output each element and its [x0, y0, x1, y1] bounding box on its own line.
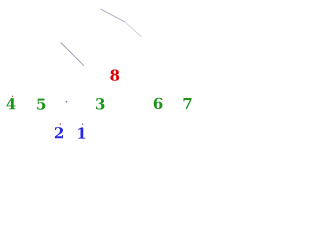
node label 2 (blue) [55, 127, 63, 138]
node label 6 (green) [154, 98, 163, 109]
node label 3 (green) [96, 98, 104, 109]
node label 5 (green) [37, 99, 45, 110]
node tick (olive) inside label 8 counter [112, 73, 115, 74]
node dot (red) above label 2 [60, 123, 62, 125]
node dot (blue) above label 1 [82, 124, 83, 125]
node dot (red) above label 4 [12, 96, 13, 97]
node dot (orange) at top-right of label 6 [161, 99, 162, 100]
wire segment T2 (steeper diagonal top-right) [125, 22, 142, 37]
wire segment A (diagonal bond upper-left) [61, 43, 84, 66]
node dot (navy) between labels 5 and 3 [66, 101, 68, 103]
node label 4 (green) [6, 98, 15, 109]
node label 1 (blue) [78, 127, 85, 138]
node label 8 (red) [110, 69, 119, 80]
node label 7 (green) [183, 98, 191, 109]
wire segment T1 (shallow diagonal top) [101, 9, 126, 22]
